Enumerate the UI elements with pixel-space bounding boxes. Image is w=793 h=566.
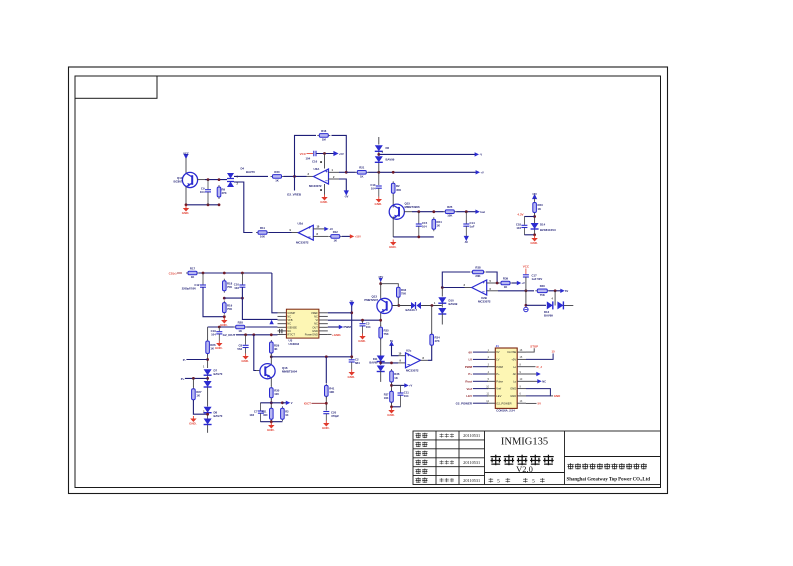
resistor R39 1K <box>499 281 512 285</box>
svg-text:4.3V: 4.3V <box>517 213 523 217</box>
op-amp U2B MC33072 <box>472 280 487 295</box>
svg-text:Iout: Iout <box>480 210 485 214</box>
power arrow +15V red <box>350 234 354 238</box>
svg-text:CS(+): CS(+) <box>169 271 177 275</box>
junction VCC row end <box>379 319 382 322</box>
svg-text:GND.: GND. <box>241 359 249 363</box>
svg-text:1K: 1K <box>360 174 364 178</box>
wire zener bottom rail <box>524 234 534 236</box>
wire U2B pin6 long <box>498 290 534 292</box>
wire R25 to Iout arrow <box>456 211 476 213</box>
wire discharge rail <box>271 356 351 358</box>
junction 15V node <box>379 282 382 285</box>
ground under R19 <box>220 318 228 327</box>
junction C16 to U2A V+ <box>323 152 326 155</box>
capacitor C11 104 <box>392 385 401 392</box>
resistor R21 1K <box>355 171 368 175</box>
svg-text:1K: 1K <box>196 394 200 398</box>
svg-text:Shanghai Greatway Top Power CO: Shanghai Greatway Top Power CO.,Ltd <box>567 477 651 482</box>
junction CS+ at R18 <box>223 272 226 275</box>
ground under C13 <box>375 197 383 206</box>
svg-text:V2.0: V2.0 <box>516 464 533 474</box>
arrow signal at divider rail <box>286 401 290 405</box>
svg-text:104: 104 <box>371 187 376 191</box>
capacitor C3 104 <box>362 320 364 323</box>
wire Q10 base to diode D4 <box>205 179 227 181</box>
svg-text:15: 15 <box>551 350 555 354</box>
ground under C8 <box>241 354 249 363</box>
svg-text:MMBT3906: MMBT3906 <box>405 205 420 209</box>
resistor R37 10K <box>390 389 394 404</box>
ground under C20 <box>322 421 330 430</box>
svg-text:4K: 4K <box>274 347 278 351</box>
svg-text:BAV70: BAV70 <box>214 372 223 376</box>
junction bottom rail at C9 <box>207 203 210 206</box>
wire U2B pin5 stub <box>487 282 498 284</box>
junction VCC row at C3 <box>361 319 364 322</box>
svg-text:10K: 10K <box>260 235 265 239</box>
junction D8 mid <box>206 413 209 416</box>
svg-text:1K: 1K <box>437 224 441 228</box>
wire U2B pin6 stub <box>487 290 499 292</box>
junction P+ node <box>206 377 209 380</box>
wire R21 to +V arrow long <box>368 171 476 173</box>
junction 4.3V node <box>533 215 536 218</box>
svg-text:+V: +V <box>409 384 413 388</box>
svg-text:104: 104 <box>422 225 427 229</box>
wire D11 mid to U2C pin9 <box>381 362 398 364</box>
svg-text:75K: 75K <box>540 293 545 297</box>
wire C20 to ground <box>325 414 327 421</box>
svg-text:1uF 50V: 1uF 50V <box>532 277 543 281</box>
wire RT/CT net <box>236 334 278 336</box>
junction RTCT at Q16 branch <box>252 333 255 336</box>
svg-text:GND.: GND. <box>358 339 366 343</box>
wire Q13 collector down to R35 <box>380 313 382 326</box>
svg-text:R37: R37 <box>384 393 389 397</box>
pin dot U2A V- <box>320 189 322 191</box>
svg-text:CLOSE: CLOSE <box>507 350 516 354</box>
svg-text:2200pF/50V: 2200pF/50V <box>182 287 197 291</box>
svg-text:GND.: GND. <box>267 428 275 432</box>
page number row: page 5 of 5 <box>489 478 494 483</box>
svg-text:1K: 1K <box>334 239 338 243</box>
wire R41 to C20 <box>325 397 327 411</box>
junction divider top right <box>281 401 284 404</box>
ground under R37 <box>387 408 395 417</box>
junction RTCT at C8 <box>244 333 247 336</box>
svg-text:Lo: Lo <box>513 365 516 369</box>
svg-text:6V: 6V <box>565 289 568 293</box>
svg-text:OUT: OUT <box>312 325 318 329</box>
svg-text:1K: 1K <box>275 179 279 183</box>
resistor R28 1K <box>234 325 247 329</box>
junction feedback at pin5 net <box>496 282 499 285</box>
capacitor C10 103 <box>241 273 243 285</box>
wire Q15 base pin stub <box>404 211 412 213</box>
wire U2A V+ pin <box>324 154 326 169</box>
svg-text:D6: D6 <box>386 146 390 150</box>
svg-text:103: 103 <box>234 286 239 290</box>
wire R11 to U2D output <box>269 232 292 234</box>
junction top rail at C9 <box>207 178 210 181</box>
svg-text:Vref: Vref <box>496 387 501 391</box>
junction at R36 top <box>390 362 393 365</box>
resistor R34 47K <box>430 332 434 347</box>
diode D10 BAV99 upper <box>441 288 443 297</box>
svg-text:G2_VREB: G2_VREB <box>287 193 302 197</box>
svg-text:BAV99: BAV99 <box>386 158 395 162</box>
svg-text:GND: GND <box>554 394 560 398</box>
resistor R33 75K <box>397 285 401 299</box>
capacitor C2 684 <box>351 357 353 360</box>
junction IOCT node <box>325 402 328 405</box>
ground under divider <box>267 423 275 432</box>
svg-text:P+: P+ <box>496 372 500 376</box>
svg-text:BAV99: BAV99 <box>449 302 458 306</box>
junction Q10 collector corner <box>185 203 188 206</box>
svg-text:GND.: GND. <box>389 245 397 249</box>
wire VREF pin to vertical <box>328 312 352 314</box>
wire U2C pin10 stub <box>399 355 407 357</box>
svg-text:D4: D4 <box>241 167 245 171</box>
power arrow 15V <box>379 278 383 282</box>
ground under C3 <box>358 334 366 343</box>
wire VCC stub to C17 <box>525 269 527 275</box>
svg-text:BC807: BC807 <box>174 180 183 184</box>
junction main wire at D6 column <box>377 171 380 174</box>
wire U2C output pin stub <box>421 359 429 361</box>
svg-text:1K: 1K <box>285 413 288 417</box>
svg-text:P+: P+ <box>468 372 472 376</box>
wire Q16 base pin stub <box>256 370 260 372</box>
power port VCC above Q10 <box>183 154 188 159</box>
wire D10 mid stub left <box>436 305 442 307</box>
svg-text:6V: 6V <box>468 350 472 354</box>
junction bottom rail C15 <box>417 236 420 239</box>
junction U2A output node <box>293 175 296 178</box>
svg-text:PowerGND: PowerGND <box>305 333 318 337</box>
svg-text:564: 564 <box>237 347 242 351</box>
svg-text:VCC: VCC <box>300 152 307 156</box>
zener diode D14 BZX84C4V3 <box>531 223 539 229</box>
svg-text:R31: R31 <box>262 410 267 414</box>
power arrow AGND under C14 <box>464 236 469 241</box>
diode D11 BAV99 upper <box>377 356 385 362</box>
junction divider top <box>270 401 273 404</box>
svg-text:104: 104 <box>200 190 205 194</box>
wire J1 pin8 to R_J label <box>526 366 536 368</box>
svg-text:+V: +V <box>481 171 485 175</box>
svg-text:+V: +V <box>522 281 526 285</box>
wire OUT pin to PWM label <box>328 326 340 328</box>
svg-text:PWM: PWM <box>496 365 503 369</box>
wire divider bottom rail <box>260 421 282 423</box>
dual diode D4 BAV70 <box>227 173 234 187</box>
wire R22 to Q15 base <box>392 195 394 208</box>
capacitor C15 104 <box>418 212 420 224</box>
svg-text:C7: C7 <box>254 410 258 414</box>
svg-text:CON16A_2.54: CON16A_2.54 <box>496 408 515 412</box>
svg-text:104: 104 <box>306 157 311 161</box>
svg-text:GND.: GND. <box>320 200 328 204</box>
wire bottom rail under Q10 <box>186 204 219 206</box>
connector J1 CON16A <box>473 348 526 408</box>
diode D10 BAV99 lower <box>438 308 446 314</box>
wire to R21 <box>346 171 355 173</box>
wire C16 to +5V arrow <box>317 153 335 155</box>
svg-text:45K: 45K <box>396 188 401 192</box>
junction at C15 <box>417 210 420 213</box>
transistor Q13 PMBT2907 <box>377 298 392 313</box>
junction at R24 <box>432 210 435 213</box>
wire D7 to D8 <box>207 387 209 406</box>
svg-text:ISENSE: ISENSE <box>287 325 297 329</box>
arrow NC at J1 pin10 <box>537 379 541 383</box>
svg-text:10K: 10K <box>384 396 389 400</box>
wire R40 to 6V arrow <box>549 290 561 292</box>
svg-text:Vref: Vref <box>467 387 473 391</box>
capacitor C8 564 <box>245 335 247 345</box>
svg-text:Pulse: Pulse <box>496 379 503 383</box>
svg-text:RT/CT: RT/CT <box>287 333 295 337</box>
net label GND at PowerGND pin <box>328 333 332 335</box>
resistor R31 300 <box>270 406 274 421</box>
wire R26 to D7 <box>207 354 209 368</box>
svg-text:INMIG135: INMIG135 <box>501 437 548 448</box>
wire VCC pin to Q13 net <box>328 319 381 321</box>
resistor R16 1M <box>317 134 330 138</box>
svg-text:R12: R12 <box>333 230 339 234</box>
capacitor C4 on IC pin row <box>279 329 281 333</box>
svg-text:R_J: R_J <box>537 365 543 369</box>
svg-text:684: 684 <box>355 361 360 365</box>
power arrow Iout <box>475 210 479 214</box>
wire 15V to Q13 emitter <box>380 284 382 299</box>
junction C17 bottom node <box>525 304 528 307</box>
wire P- stub <box>186 359 207 361</box>
junction RTCT at R29 <box>270 333 273 336</box>
wire D12 right dangling stub <box>564 305 573 307</box>
wire R33 to emitter rail <box>397 298 399 306</box>
svg-text:100: 100 <box>274 392 279 396</box>
wire D4 pin1 to R20 <box>234 175 268 177</box>
wire D11 bottom dangling <box>380 371 382 382</box>
capacitor C13 104 <box>378 172 380 185</box>
svg-text:UC3843: UC3843 <box>289 342 300 346</box>
svg-text:20110531: 20110531 <box>463 478 480 483</box>
wire 15V arrow stub <box>380 282 382 284</box>
power arrow at U2D pin10 <box>324 227 328 231</box>
resistor R40 75K <box>535 289 549 293</box>
transistor Q15 MMBT3906 <box>389 204 404 219</box>
svg-text:104: 104 <box>516 226 521 230</box>
wire J1 pin16 to STOP <box>526 348 534 352</box>
wire RTCT to Q16 base <box>254 335 256 371</box>
resistor R19 75K <box>223 301 227 315</box>
svg-text:20110531: 20110531 <box>463 433 480 438</box>
svg-text:PWM: PWM <box>465 365 473 369</box>
resistor R17 1K <box>186 271 199 275</box>
svg-text:MC33072: MC33072 <box>309 184 322 188</box>
svg-text:R25: R25 <box>447 205 453 209</box>
wire CS+ rail <box>199 272 272 274</box>
wire R29 to Q16 collector <box>270 354 272 365</box>
svg-text:U2d: U2d <box>298 221 304 225</box>
wire R18R19 mid to C10 node <box>224 297 242 299</box>
svg-text:75K: 75K <box>384 332 389 336</box>
svg-text:VCC: VCC <box>523 265 530 269</box>
svg-text:BZX84C4V3: BZX84C4V3 <box>540 228 556 232</box>
junction divider bottom <box>270 420 273 423</box>
resistor R38 20K <box>471 270 486 274</box>
ground under C2 <box>347 370 355 379</box>
svg-text:20K: 20K <box>475 274 480 278</box>
svg-text:1K: 1K <box>210 347 214 351</box>
resistor R23 1K <box>533 201 537 215</box>
svg-text:5V: 5V <box>390 339 393 343</box>
svg-text:MC33072: MC33072 <box>296 241 309 245</box>
resistor R20 1K <box>271 175 284 179</box>
wire R39 to arrow <box>512 282 517 284</box>
wire VCC to C16 <box>307 153 314 155</box>
wire D10 bottom dangling <box>441 314 443 325</box>
dual diode D7 BAV70 upper <box>204 369 212 375</box>
pin dot U2A V+ <box>320 161 322 163</box>
svg-text:10K: 10K <box>447 213 452 217</box>
svg-text:NC: NC <box>314 314 318 318</box>
wire down to R26 <box>207 327 209 340</box>
wire R28 to ISENSE pin <box>247 326 278 328</box>
wire junction down to D12 mid <box>554 291 556 306</box>
svg-text:NC: NC <box>542 380 546 384</box>
svg-text:75K: 75K <box>401 292 406 296</box>
svg-text:104: 104 <box>404 394 409 398</box>
dual diode D9 BAS40-7 <box>411 302 421 309</box>
wire U2A pin2 down <box>339 179 346 191</box>
wire U2D output pin stub <box>292 232 299 234</box>
junction R19 ground node <box>223 315 226 318</box>
resistor R32 1K <box>281 406 285 421</box>
wire U2D pin8 to R12 <box>313 235 329 237</box>
polarized terminal symbol <box>524 307 528 311</box>
svg-text:300: 300 <box>263 413 268 417</box>
resistor R9 47K <box>217 185 221 199</box>
wire Q15 collector to R25 <box>412 211 444 213</box>
wire 4.3V node left <box>524 216 534 218</box>
wire R27 bottom to D8 mid <box>193 400 207 414</box>
power arrow negative supply at U2A <box>344 190 349 195</box>
junction R18 R19 <box>223 297 226 300</box>
power arrow -V right end <box>475 152 479 156</box>
arrow at J1 pin9 <box>536 372 540 376</box>
junction CS+ at C12 <box>202 272 205 275</box>
drawing outer border frame <box>69 67 668 494</box>
wire R23 to zener D14 <box>534 213 536 235</box>
capacitor C12 2200pF <box>202 273 204 285</box>
wire bottom rail under Q15 <box>393 236 434 238</box>
op-amp U2C MC33072 <box>406 353 421 368</box>
arrow PWM out <box>339 325 343 329</box>
wire P+ down to R27 <box>192 378 194 387</box>
capacitor C7 103 <box>259 403 261 411</box>
svg-text:GND.: GND. <box>215 346 223 350</box>
wire between D6 diodes <box>378 152 380 156</box>
svg-text:MC33072: MC33072 <box>478 299 491 303</box>
op-amp U2A MC33072 <box>314 169 329 184</box>
wire R12 to +15V <box>342 235 350 237</box>
resistor R25 10K <box>443 210 456 214</box>
svg-text:GND.: GND. <box>530 241 538 245</box>
resistor R27 1K <box>192 387 196 402</box>
svg-text:1K: 1K <box>538 207 542 211</box>
wire U2B feedback left <box>442 272 470 288</box>
dual diode D8 BAV70 upper <box>204 407 212 413</box>
svg-text:10K: 10K <box>329 390 334 394</box>
svg-text:15V: 15V <box>532 192 537 196</box>
svg-text:47K: 47K <box>435 339 440 343</box>
svg-text:GND.: GND. <box>347 375 355 379</box>
svg-text:BAV99: BAV99 <box>544 314 553 318</box>
svg-text:MC33072: MC33072 <box>406 369 419 373</box>
junction rail at C2 <box>350 355 353 358</box>
junction ISENSE at C19 <box>218 326 221 329</box>
junction rail at R41 branch <box>325 355 328 358</box>
wire D10 node to U2B output <box>442 287 464 289</box>
wire C10 down to VFB pin <box>242 287 277 319</box>
junction R36 bottom <box>390 384 393 387</box>
svg-text:G2_IOUT: G2_IOUT <box>223 333 236 337</box>
ground under D14 <box>530 236 538 245</box>
junction pin6 at C17 <box>525 289 528 292</box>
svg-text:BAV99: BAV99 <box>369 360 378 364</box>
svg-text:C16: C16 <box>312 160 318 164</box>
capacitor C16 104 <box>314 151 316 157</box>
power arrow under VFB wire <box>269 320 273 324</box>
resistor R30 100 <box>270 386 274 400</box>
svg-text:GND.: GND. <box>182 211 190 215</box>
wire ISENSE net left <box>208 326 234 328</box>
ground under Q10 <box>182 206 190 215</box>
svg-text:1K: 1K <box>238 329 242 333</box>
svg-text:AV: AV <box>465 240 469 244</box>
junction R37 ground node <box>390 405 393 408</box>
junction D11 mid <box>379 362 382 365</box>
wire divider rail to arrow <box>282 402 286 404</box>
transistor Q10 BC807 <box>182 172 197 187</box>
svg-text:+15V: +15V <box>355 235 361 239</box>
svg-text:J1: J1 <box>496 344 500 348</box>
junction U2A pin1 feedback <box>345 171 348 174</box>
wire U2A pin2 stub <box>328 178 339 180</box>
dual diode D8 BAV70 lower <box>204 419 212 425</box>
junction at C14 <box>465 210 468 213</box>
svg-text:R17: R17 <box>190 266 196 270</box>
svg-text:MMBT3904: MMBT3904 <box>282 370 297 374</box>
wire stub net G2_VREB <box>294 176 296 190</box>
svg-text:5V: 5V <box>538 402 542 406</box>
wire C12 bottom to ground rail <box>203 287 224 316</box>
wire J1 pin10 to arrow <box>526 380 538 382</box>
capacitor C20 470pF <box>323 412 329 414</box>
svg-text:R40: R40 <box>540 284 546 288</box>
junction P- node <box>206 358 209 361</box>
diode D12 BAV99 left <box>547 301 553 309</box>
wire C17 node to D12 <box>526 304 546 306</box>
svg-text:GND.: GND. <box>387 413 395 417</box>
junction bottom rail at R9 <box>218 203 221 206</box>
dual diode D7 BAV70 lower <box>204 381 212 387</box>
